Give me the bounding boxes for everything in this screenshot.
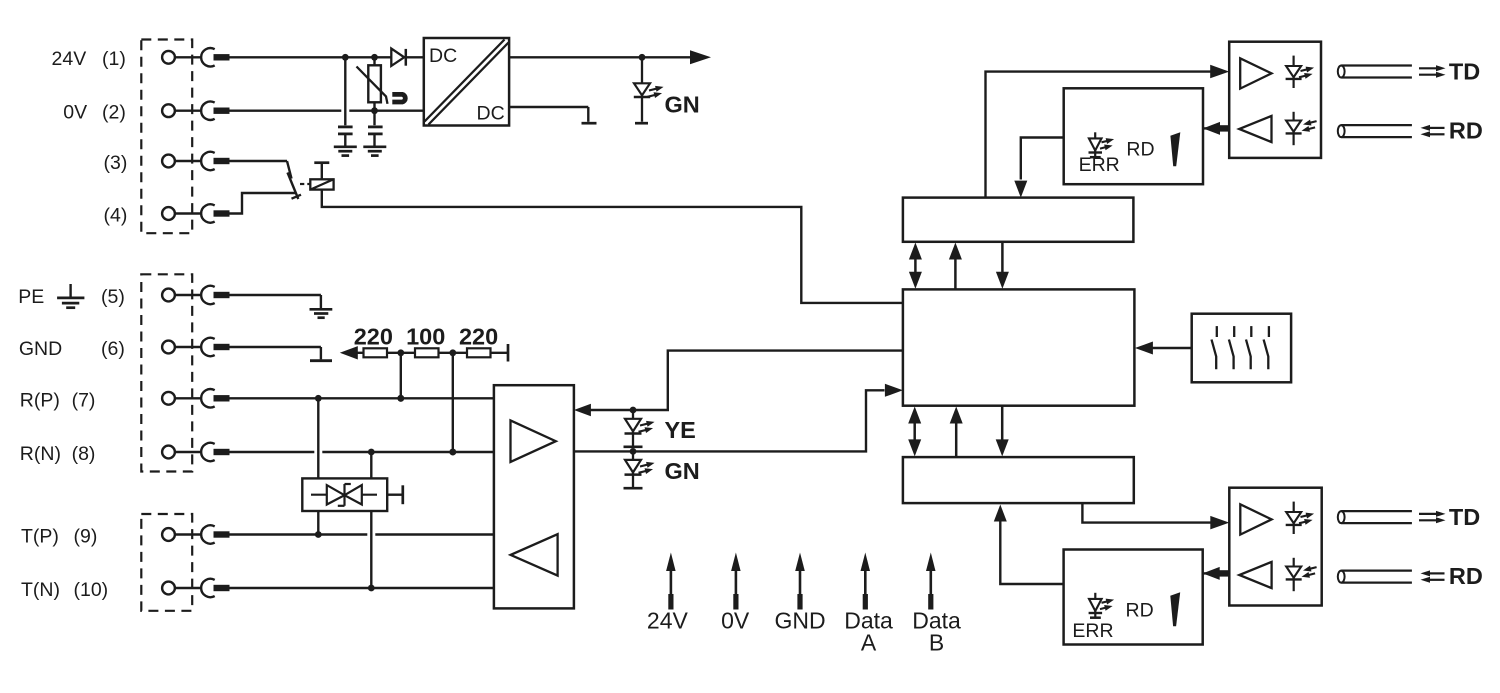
node term/R1R2 — [397, 349, 404, 356]
earth symbol at PE label — [57, 284, 84, 308]
light arrows GN LED (data) — [638, 460, 656, 476]
DIP switch S1 — [1192, 314, 1291, 383]
svg-text:(2): (2) — [102, 101, 126, 123]
label PE (5) — [18, 286, 125, 308]
arrow to GND (termination) — [340, 346, 358, 359]
wire TVS left lead (hop over R(N)) — [314, 398, 322, 534]
node YE LED — [630, 407, 637, 414]
wire RX enable (from controller) — [590, 351, 903, 410]
FO2 receive diode — [1286, 558, 1302, 591]
svg-text:RD: RD — [1126, 599, 1154, 621]
receiver triangle U2 — [511, 534, 558, 575]
arrow RX into ERR1 — [1203, 122, 1220, 135]
svg-text:PE: PE — [18, 286, 44, 308]
terminal block housing (9)-(10) — [141, 514, 192, 611]
svg-text:(8): (8) — [72, 443, 96, 465]
light arrows LED ERR1 — [1099, 136, 1115, 151]
LED GN (data) — [624, 451, 643, 488]
terminal 5 — [162, 286, 229, 304]
terminator bar (termination row) — [507, 344, 510, 362]
label 220 (R3) — [459, 324, 498, 350]
ground tick GND — [310, 359, 332, 362]
terminal 8 — [162, 443, 229, 461]
wire DIP to controller — [1152, 347, 1192, 349]
label (4) — [104, 205, 128, 227]
wire FO1 RX out — [1214, 125, 1230, 131]
svg-text:DC: DC — [429, 45, 457, 67]
legend arrow GND — [795, 553, 805, 610]
svg-text:GND: GND — [774, 608, 825, 634]
arrow DIP into controller — [1135, 342, 1153, 355]
terminal 7 — [162, 389, 229, 407]
wire drop to R(N) (hop over R(P)) — [449, 353, 457, 452]
terminal 6 — [162, 338, 229, 356]
label TD (upper) — [1449, 59, 1480, 85]
capacitor C1 — [338, 127, 353, 146]
light arrows FO2 RX LED — [1301, 564, 1318, 580]
node GN LED supply — [639, 54, 646, 61]
fiber RD2 — [1338, 570, 1445, 582]
node term/R2R3 — [449, 349, 456, 356]
svg-text:GND: GND — [19, 338, 62, 360]
legend label Data B — [912, 608, 961, 656]
DC/DC converter U1 — [424, 38, 509, 126]
wire from terminal 4 — [230, 193, 296, 214]
wire TVS right lead (hop over T(P)) — [367, 452, 375, 588]
legend arrow 0V — [731, 553, 741, 610]
terminal block housing (1)-(4) — [141, 40, 192, 234]
legend arrow 24V — [666, 553, 676, 610]
svg-text:ERR: ERR — [1079, 154, 1120, 176]
svg-text:RD: RD — [1449, 563, 1483, 589]
wire PE — [230, 295, 321, 308]
label RD (lower) — [1449, 563, 1483, 589]
LED ERR1 — [1089, 132, 1103, 157]
capacitor C2 — [368, 127, 383, 146]
LED YE — [624, 410, 643, 447]
transceiver U2 — [494, 385, 574, 608]
node drop/R(N) — [449, 449, 456, 456]
node 24V/RV1 — [371, 54, 378, 61]
light arrows FO1 RX LED — [1301, 118, 1318, 134]
svg-text:100: 100 — [406, 324, 445, 350]
svg-text:(3): (3) — [104, 152, 128, 174]
controller block U3 — [903, 289, 1135, 405]
diode D1 — [391, 49, 406, 66]
wire TX to FO1 — [986, 72, 1211, 198]
bus arrow down (bottom) — [996, 406, 1009, 457]
label 24V (1) — [52, 48, 126, 70]
label ERR (ERR2) — [1072, 620, 1113, 642]
relay coil K1 — [310, 179, 333, 189]
label TD (lower) — [1449, 504, 1480, 530]
arrow RX into ERR2 — [1203, 567, 1220, 580]
fiber optic module FO1 — [1229, 42, 1321, 158]
svg-text:TD: TD — [1449, 504, 1480, 530]
ground C1 — [334, 147, 357, 156]
resistor R1 220 — [364, 348, 388, 357]
wire T(N) — [230, 587, 494, 589]
bus interface block (top) — [903, 198, 1134, 242]
varistor RV1 — [357, 65, 388, 104]
node 24V/C1 — [342, 54, 349, 61]
fiber TD1 — [1338, 65, 1446, 77]
relay coil terminal — [314, 163, 329, 180]
bus arrow down (top) — [996, 242, 1009, 289]
label R(N) (8) — [20, 443, 96, 465]
label U (varistor marking) — [392, 94, 405, 102]
svg-text:A: A — [861, 630, 877, 656]
arrow ERR1 into bus — [1014, 181, 1027, 198]
arrow into controller — [885, 384, 903, 397]
light arrows YE LED — [638, 419, 656, 435]
driver triangle U2 — [511, 420, 556, 462]
label T(P) (9) — [21, 526, 97, 548]
svg-text:(4): (4) — [104, 205, 128, 227]
FO1 transmit LED — [1286, 56, 1302, 88]
legend label 0V — [721, 608, 750, 634]
node R(N)/TVS — [368, 449, 375, 456]
svg-text:(5): (5) — [101, 286, 125, 308]
label GND (6) — [19, 338, 125, 360]
relay contact blade — [288, 173, 302, 200]
svg-text:YE: YE — [665, 417, 696, 443]
label (3) — [104, 152, 128, 174]
resistor R3 220 — [467, 348, 491, 357]
label 100 (R2) — [406, 324, 445, 350]
bus arrow up (top) — [949, 243, 962, 290]
FO1 receive diode — [1286, 112, 1302, 145]
wire ERR1 to bus — [1021, 138, 1064, 180]
node T(N)/TVS — [368, 585, 375, 592]
svg-text:(10): (10) — [74, 579, 109, 601]
label YE — [665, 417, 696, 443]
earth symbol PE — [310, 309, 333, 317]
FO1 transmit driver — [1240, 58, 1271, 88]
light arrows FO1 TX LED — [1298, 65, 1315, 81]
arrow ERR2 into bus — [994, 505, 1007, 522]
wire 0V rail — [230, 109, 424, 111]
label RD (ERR1) — [1126, 139, 1154, 161]
svg-text:R(N): R(N) — [20, 443, 61, 465]
terminal 3 — [162, 152, 229, 170]
node drop/R(P) stamp — [397, 395, 404, 402]
wire C1 lead (hop over 0V) — [341, 57, 349, 125]
FO2 receive amp — [1239, 562, 1271, 588]
svg-text:R(P): R(P) — [20, 389, 60, 411]
svg-text:(1): (1) — [102, 48, 126, 70]
node GN LED — [630, 448, 637, 455]
suppressor diode symbol — [311, 484, 377, 506]
wire TX to FO2 — [1082, 503, 1210, 522]
arrow into transceiver — [574, 404, 591, 416]
label 220 (R1) — [354, 324, 393, 350]
svg-text:24V: 24V — [52, 48, 87, 70]
wire termination row — [358, 352, 509, 354]
node drop/R(N) stamp — [449, 449, 456, 456]
FO2 transmit driver — [1240, 504, 1271, 534]
node T(P)/TVS — [315, 531, 322, 538]
terminal 2 — [162, 102, 229, 120]
label GN (power LED) — [665, 92, 700, 118]
legend arrow Data B — [926, 553, 936, 610]
fiber RD1 — [1338, 125, 1445, 137]
wire T(P) — [230, 533, 494, 535]
label RD (upper) — [1449, 117, 1483, 143]
svg-text:GN: GN — [665, 458, 700, 484]
svg-text:220: 220 — [354, 324, 393, 350]
svg-text:GN: GN — [665, 92, 700, 118]
label R(P) (7) — [20, 389, 96, 411]
suppressor box V1 — [302, 478, 387, 511]
svg-text:TD: TD — [1449, 59, 1480, 85]
flash symbol ERR1 — [1170, 132, 1180, 166]
node R(P)/TVS — [315, 395, 322, 402]
bus interface block (bottom) — [903, 457, 1134, 503]
svg-text:(6): (6) — [101, 338, 125, 360]
FO1 receive amp — [1239, 116, 1271, 142]
fiber TD2 — [1338, 511, 1446, 523]
svg-text:DC: DC — [477, 103, 505, 125]
svg-text:220: 220 — [459, 324, 498, 350]
legend label 24V — [647, 608, 689, 634]
suppressor terminal — [387, 485, 403, 504]
legend arrow Data A — [861, 553, 871, 610]
FO2 transmit LED — [1286, 502, 1302, 534]
wire TX data (to controller) — [574, 390, 885, 451]
label ERR (ERR1) — [1079, 154, 1120, 176]
node drop/R(P) — [397, 395, 404, 402]
svg-text:RD: RD — [1126, 139, 1154, 161]
ground C2 — [363, 147, 386, 156]
arrow TX into FO1 — [1210, 65, 1229, 79]
label GN (data LED) — [665, 458, 700, 484]
wire ERR2 to bus — [1000, 521, 1063, 584]
svg-text:24V: 24V — [647, 608, 689, 634]
svg-text:B: B — [929, 630, 944, 656]
wire GND — [230, 347, 321, 359]
svg-text:RD: RD — [1449, 117, 1483, 143]
label 0V (2) — [63, 101, 126, 123]
light arrows LED ERR2 — [1099, 597, 1115, 612]
light arrows FO2 TX LED — [1298, 511, 1315, 527]
wire R(P) — [230, 397, 494, 399]
node 0V/RV1 — [371, 107, 378, 114]
wire DC/DC +out — [509, 56, 692, 58]
flash symbol ERR2 — [1170, 592, 1180, 626]
terminal 10 — [162, 579, 229, 597]
LED GN (power) — [634, 57, 650, 123]
wire relay to controller — [322, 190, 903, 303]
arrow TX into FO2 — [1210, 516, 1229, 530]
svg-text:(7): (7) — [72, 389, 96, 411]
fiber optic module FO2 — [1229, 488, 1321, 606]
error box ERR2 — [1064, 550, 1203, 645]
terminal 1 — [162, 48, 229, 66]
svg-text:T(N): T(N) — [21, 579, 60, 601]
svg-text:ERR: ERR — [1072, 620, 1113, 642]
bus arrow up/down (top) — [909, 243, 922, 289]
terminal 9 — [162, 525, 229, 543]
terminal 4 — [162, 204, 229, 222]
svg-text:T(P): T(P) — [21, 526, 59, 548]
error box ERR1 — [1064, 88, 1203, 184]
label T(N) (10) — [21, 579, 108, 601]
relay linkage (dashed) — [300, 183, 312, 185]
wire RV1 leads — [373, 57, 375, 125]
wire DC/DC -out — [509, 107, 596, 123]
legend label GND — [774, 608, 825, 634]
legend label Data A — [844, 608, 893, 656]
wire from terminal 3 — [230, 161, 292, 179]
light arrows GN LED — [647, 84, 665, 100]
svg-text:0V: 0V — [721, 608, 750, 634]
terminal block housing (5)-(8) — [141, 274, 192, 471]
resistor R2 100 — [415, 348, 439, 357]
label RD (ERR2) — [1126, 599, 1154, 621]
bus arrow up/down (bottom) — [908, 407, 921, 457]
wire drop to R(P) — [400, 353, 402, 399]
wire R(N) — [230, 451, 494, 453]
wire 24V rail — [230, 56, 424, 58]
arrow internal supply — [690, 50, 711, 64]
svg-text:0V: 0V — [63, 101, 87, 123]
wire FO2 RX out — [1214, 570, 1230, 576]
bus arrow up (bottom) — [950, 407, 963, 458]
LED ERR2 — [1089, 593, 1103, 618]
svg-text:(9): (9) — [74, 526, 98, 548]
